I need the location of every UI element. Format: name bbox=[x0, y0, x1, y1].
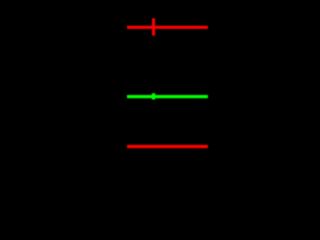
series 2 green horizontal line bbox=[127, 95, 208, 98]
series 3 red horizontal line bbox=[127, 145, 208, 148]
series 1 red error bar bbox=[152, 18, 155, 35]
series 2 green marker bbox=[152, 93, 155, 99]
series 1 red horizontal line bbox=[127, 26, 208, 29]
canvas background bbox=[0, 0, 241, 172]
